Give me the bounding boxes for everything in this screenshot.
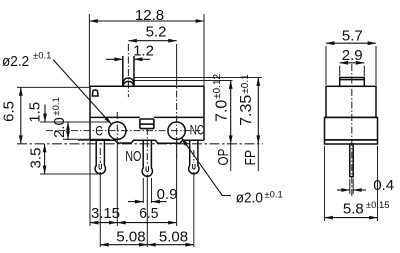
svg-text:±0.1: ±0.1	[51, 97, 62, 115]
svg-text:OP: OP	[215, 149, 232, 166]
svg-text:1.2: 1.2	[133, 43, 154, 60]
svg-text:7.35: 7.35	[238, 95, 255, 126]
svg-text:6.5: 6.5	[139, 205, 158, 222]
svg-text:C: C	[95, 122, 103, 138]
svg-text:ø2.2: ø2.2	[2, 53, 29, 70]
svg-text:6.5: 6.5	[1, 101, 18, 122]
svg-text:ø2.0: ø2.0	[236, 190, 263, 207]
svg-text:±0.15: ±0.15	[366, 200, 390, 211]
svg-text:3.5: 3.5	[28, 148, 45, 169]
svg-text:5.08: 5.08	[159, 228, 188, 245]
svg-text:NC: NC	[190, 122, 205, 137]
svg-text:±0.1: ±0.1	[240, 74, 251, 94]
svg-text:5.7: 5.7	[342, 27, 363, 44]
svg-text:2.9: 2.9	[342, 47, 363, 64]
svg-text:1.5: 1.5	[27, 102, 44, 123]
svg-text:±0.1: ±0.1	[33, 51, 51, 62]
svg-text:5.08: 5.08	[116, 228, 145, 245]
svg-text:±0.12: ±0.12	[212, 73, 223, 98]
svg-text:0.4: 0.4	[373, 177, 394, 194]
svg-text:5.8: 5.8	[343, 201, 364, 218]
svg-text:FP: FP	[242, 150, 259, 166]
svg-text:5.2: 5.2	[146, 24, 167, 41]
svg-text:NO: NO	[125, 148, 141, 165]
svg-text:7.0: 7.0	[214, 100, 231, 122]
svg-text:0.9: 0.9	[157, 186, 178, 203]
svg-text:±0.1: ±0.1	[264, 190, 282, 201]
svg-text:2.0: 2.0	[51, 117, 68, 138]
svg-text:12.8: 12.8	[135, 7, 164, 24]
svg-text:3.15: 3.15	[91, 205, 120, 222]
